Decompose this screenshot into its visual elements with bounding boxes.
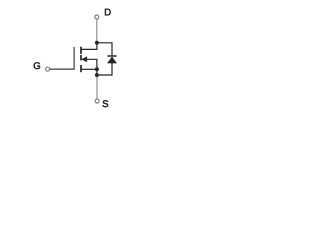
label D [105, 9, 111, 16]
wire: drain lead from channel to drain node [81, 43, 97, 50]
wire: source node down to diode tap node [96, 69, 98, 75]
terminal S (open pin circle) [95, 99, 99, 103]
label S [103, 100, 109, 107]
body diode D1 anode triangle (points up toward cathode) [107, 57, 116, 63]
wire: branch from body diode anode to source-side node [97, 63, 112, 75]
node: diode tap junction dot [95, 73, 99, 77]
label G [34, 62, 40, 69]
terminal D (open pin circle) [95, 15, 99, 19]
terminal G (open pin circle) [46, 67, 50, 71]
transistor Q1 substrate arrow (points into channel) [82, 57, 87, 62]
node: source junction dot [95, 67, 99, 71]
wire: source terminal lead (vertical, Q1 source node down to terminal S) [96, 75, 98, 99]
body diode D1 cathode bar [107, 55, 116, 57]
transistor Q1 channel dash (drain segment) [80, 47, 82, 54]
transistor Q1 gate lead and gate electrode (L shape from terminal G) [50, 47, 74, 69]
wire: drain terminal lead (vertical, terminal D down to Q1 drain node) [96, 19, 98, 41]
node: drain junction dot [95, 41, 99, 45]
transistor Q1 channel dash (body segment) [80, 55, 82, 60]
wire: body connection from arrow to source node [87, 59, 97, 69]
transistor Q1 channel dash (source segment) [80, 65, 82, 72]
wire: branch from drain node to body diode cathode [97, 43, 112, 56]
wire: source lead from channel to source node [81, 68, 97, 70]
